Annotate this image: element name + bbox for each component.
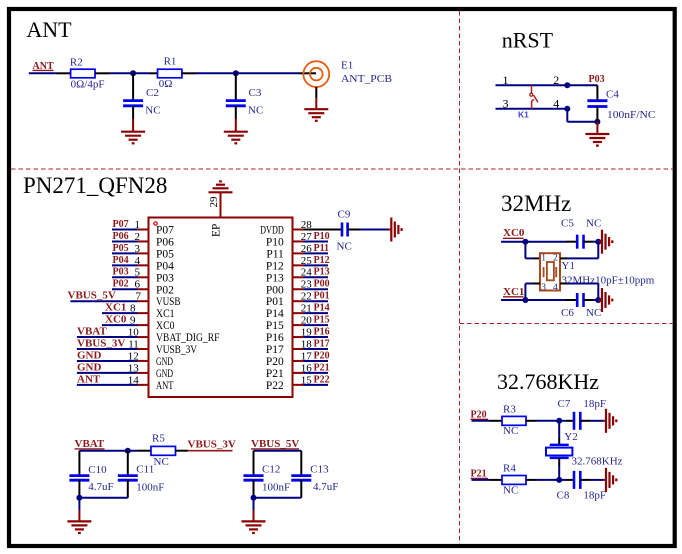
wire C5 right — [584, 241, 599, 243]
svg-text:P02: P02 — [113, 279, 129, 290]
svg-text:XC0: XC0 — [156, 320, 175, 332]
wire R1 to node2 — [182, 72, 236, 74]
junction VBAT ground — [76, 495, 82, 501]
junction VBUS_5V ground — [251, 495, 257, 501]
svg-text:P10: P10 — [314, 231, 330, 242]
svg-text:GND: GND — [156, 356, 173, 368]
svg-text:P11: P11 — [314, 243, 330, 254]
svg-text:ANT: ANT — [156, 380, 174, 392]
wire node to C7 — [559, 420, 574, 422]
svg-text:32.768KHz: 32.768KHz — [572, 455, 623, 467]
pin 2 P06 — [112, 231, 174, 249]
svg-text:0Ω: 0Ω — [159, 78, 173, 90]
wire rail to R5 — [138, 450, 152, 452]
svg-text:P17: P17 — [314, 338, 330, 349]
svg-text:GND: GND — [156, 368, 173, 380]
capacitor C12 — [244, 451, 291, 498]
net label VBAT power — [75, 438, 105, 450]
svg-text:P16: P16 — [266, 332, 284, 344]
svg-text:P01: P01 — [314, 291, 330, 302]
wire ANT to R2 — [29, 72, 71, 74]
svg-text:10: 10 — [128, 326, 140, 338]
svg-text:18pF: 18pF — [583, 398, 606, 410]
junction XC0 — [522, 239, 528, 245]
ground right of C9 — [388, 229, 391, 231]
pin 13 GND — [77, 361, 173, 380]
resistor R1 — [158, 56, 182, 91]
section divider horizontal upper — [11, 168, 673, 170]
wire node2 to E1 — [236, 72, 316, 74]
pin 16 P21 — [266, 362, 330, 380]
pin 27 P10 — [266, 231, 330, 249]
resistor R5 — [151, 433, 176, 468]
svg-text:P10: P10 — [266, 236, 284, 248]
svg-text:5: 5 — [135, 267, 141, 279]
pin 8 XC1 — [102, 302, 175, 321]
wire node1 to R1 — [150, 72, 158, 74]
wire node to Y2 — [558, 421, 560, 445]
pin 26 P11 — [266, 243, 329, 261]
svg-text:C7: C7 — [558, 398, 571, 410]
net label P21 — [471, 468, 489, 479]
svg-text:NC: NC — [586, 307, 601, 319]
svg-text:ANT: ANT — [26, 17, 72, 42]
svg-text:P00: P00 — [314, 279, 330, 290]
svg-text:P04: P04 — [113, 255, 129, 266]
pin 4 P04 — [112, 255, 174, 273]
svg-text:R5: R5 — [152, 433, 165, 445]
svg-text:VBUS_3V: VBUS_3V — [188, 439, 236, 451]
junction C5 right — [595, 239, 601, 245]
pin 11 VUSB_3V — [77, 337, 198, 356]
wire switch top — [496, 84, 598, 86]
svg-text:P03: P03 — [113, 267, 129, 278]
crystal Y1 — [540, 253, 655, 293]
antenna E1 ANT_PCB — [303, 60, 392, 87]
pin 18 P17 — [266, 338, 330, 356]
pin 10 VBAT_DIG_RF — [77, 325, 220, 344]
ground right of C7 — [604, 420, 606, 422]
svg-text:P13: P13 — [314, 267, 330, 278]
svg-text:NC: NC — [503, 425, 518, 437]
svg-text:C11: C11 — [136, 463, 154, 475]
ground above chip EP — [220, 192, 222, 217]
svg-text:E1: E1 — [341, 60, 353, 72]
svg-text:XC1: XC1 — [105, 302, 126, 314]
svg-text:P11: P11 — [266, 248, 284, 260]
svg-text:Y2: Y2 — [564, 431, 577, 443]
svg-text:P16: P16 — [314, 326, 330, 337]
ground right of C5 — [598, 241, 602, 243]
resistor R4 — [502, 462, 526, 496]
svg-text:18pF: 18pF — [583, 490, 606, 502]
net label XC1 — [503, 286, 524, 298]
wire XC0 — [501, 241, 577, 243]
svg-text:P03: P03 — [589, 74, 605, 85]
junction P20 node — [556, 418, 562, 424]
svg-text:29: 29 — [208, 196, 220, 208]
svg-text:NC: NC — [154, 456, 169, 468]
svg-text:P01: P01 — [266, 296, 284, 308]
svg-text:11: 11 — [128, 338, 139, 350]
svg-text:P12: P12 — [266, 260, 284, 272]
svg-text:6: 6 — [135, 279, 141, 291]
svg-text:9: 9 — [130, 315, 136, 327]
pin 17 P20 — [266, 350, 330, 368]
svg-text:3: 3 — [135, 243, 141, 255]
op-amp U1 PN271 chip body — [149, 218, 293, 398]
svg-text:P21: P21 — [266, 368, 284, 380]
wire R4 to node — [526, 479, 559, 481]
wire C6 right — [584, 299, 599, 301]
svg-text:4.7uF: 4.7uF — [313, 481, 338, 493]
svg-text:P00: P00 — [266, 284, 284, 296]
svg-text:P05: P05 — [156, 248, 174, 260]
svg-text:VBUS_3V: VBUS_3V — [77, 337, 125, 349]
svg-text:C13: C13 — [310, 463, 329, 475]
svg-text:P07: P07 — [156, 225, 174, 237]
svg-text:100nF: 100nF — [262, 481, 290, 493]
junction C4 bottom — [594, 119, 600, 125]
svg-text:P12: P12 — [314, 255, 330, 266]
net label VBUS_5V power — [251, 438, 299, 450]
svg-text:P03: P03 — [156, 272, 174, 284]
capacitor C3 — [226, 73, 263, 119]
wire node to C8 — [559, 479, 574, 481]
capacitor C6 — [561, 293, 601, 319]
svg-text:4: 4 — [553, 283, 558, 293]
wire C9 right — [348, 229, 388, 231]
pin 6 P02 — [112, 279, 174, 297]
svg-text:P22: P22 — [266, 380, 284, 392]
section divider horizontal right — [460, 323, 674, 325]
svg-text:2: 2 — [135, 231, 141, 243]
wire Y1 pin4 to C6 node — [560, 284, 598, 301]
svg-text:C6: C6 — [561, 307, 574, 319]
svg-text:C8: C8 — [557, 490, 570, 502]
svg-text:1: 1 — [541, 253, 546, 263]
svg-text:R1: R1 — [164, 56, 177, 68]
capacitor C9 — [337, 209, 352, 253]
svg-text:P13: P13 — [266, 272, 284, 284]
svg-text:C5: C5 — [561, 217, 574, 229]
wire R3 to node — [526, 420, 559, 422]
capacitor C11 — [118, 451, 165, 498]
wire VBAT rail — [79, 450, 137, 452]
wire C8 right — [580, 479, 603, 481]
junction XC1 — [522, 297, 528, 303]
ground right of C8 — [604, 479, 606, 481]
pin 1 P07 — [112, 219, 174, 237]
ground under C3 — [235, 119, 237, 132]
svg-text:8: 8 — [130, 303, 136, 315]
svg-text:K1: K1 — [518, 110, 529, 120]
capacitor C5 — [561, 217, 601, 248]
pin 12 GND — [77, 349, 173, 368]
svg-text:P05: P05 — [113, 243, 129, 254]
junction switch top — [564, 82, 570, 88]
svg-text:1: 1 — [135, 219, 141, 231]
wire XC0 to Y1 pin1 — [525, 242, 540, 259]
svg-text:NC: NC — [586, 217, 601, 229]
wire XC1 to Y1 pin3 — [525, 284, 540, 301]
wire R2 to node1 — [95, 72, 150, 74]
svg-text:XC0: XC0 — [503, 227, 525, 239]
svg-text:P14: P14 — [266, 308, 284, 320]
svg-text:DVDD: DVDD — [260, 225, 284, 237]
junction node2 — [233, 70, 239, 76]
pin 22 P01 — [266, 291, 330, 309]
wire VBAT ground rail — [79, 497, 127, 499]
pin 28 DVDD — [260, 219, 312, 237]
svg-text:100nF: 100nF — [136, 481, 164, 493]
pin 3 P05 — [112, 243, 174, 261]
svg-text:P22: P22 — [314, 374, 330, 385]
svg-text:ANT_PCB: ANT_PCB — [341, 73, 392, 85]
pin 20 P15 — [266, 315, 330, 333]
svg-text:P20: P20 — [266, 356, 284, 368]
svg-text:P02: P02 — [156, 284, 174, 296]
svg-text:XC1: XC1 — [156, 308, 175, 320]
svg-text:P14: P14 — [314, 303, 330, 314]
svg-text:C4: C4 — [606, 89, 619, 101]
svg-text:NC: NC — [248, 105, 263, 117]
net label VBUS_3V — [176, 439, 236, 451]
wire P20 to R3 — [472, 420, 503, 422]
svg-text:P21: P21 — [314, 362, 330, 373]
wire XC1 — [501, 299, 577, 301]
svg-text:P17: P17 — [266, 344, 284, 356]
pin 5 P03 — [112, 267, 174, 285]
svg-text:C10: C10 — [88, 464, 107, 476]
wire DVDD to C9 — [304, 229, 343, 231]
svg-text:NC: NC — [337, 241, 352, 253]
crystal Y2 — [546, 431, 623, 467]
pin 25 P12 — [266, 255, 330, 273]
svg-text:NC: NC — [503, 484, 518, 496]
svg-text:VBAT_DIG_RF: VBAT_DIG_RF — [156, 332, 220, 344]
pin 14 ANT — [77, 373, 174, 392]
capacitor C7 — [558, 398, 607, 430]
svg-text:13: 13 — [128, 362, 140, 374]
svg-text:14: 14 — [128, 374, 140, 386]
svg-text:3: 3 — [541, 283, 546, 293]
pin 7 VUSB — [68, 290, 181, 309]
svg-text:PN271_QFN28: PN271_QFN28 — [23, 173, 167, 198]
junction C6 right — [595, 297, 601, 303]
pin 23 P00 — [266, 279, 330, 297]
svg-text:ANT: ANT — [77, 373, 101, 385]
wire VBUS_5V ground rail — [254, 497, 302, 499]
svg-text:Y1: Y1 — [562, 260, 575, 272]
pin 9 XC0 — [102, 314, 175, 333]
pin 19 P16 — [266, 326, 330, 344]
svg-text:2: 2 — [553, 253, 558, 263]
ground right of C6 — [598, 299, 602, 301]
svg-text:C2: C2 — [146, 87, 159, 99]
svg-text:P15: P15 — [266, 320, 284, 332]
svg-text:VUSB: VUSB — [156, 296, 181, 308]
net label XC0 — [503, 227, 525, 239]
svg-text:NC: NC — [145, 105, 160, 117]
svg-text:C9: C9 — [338, 209, 351, 221]
junction VBAT rail C11 — [125, 448, 131, 454]
wire Y2 to P21 node — [558, 458, 560, 480]
svg-text:VUSB_3V: VUSB_3V — [156, 344, 198, 356]
svg-text:C3: C3 — [249, 87, 262, 99]
pin 24 P13 — [266, 267, 330, 285]
svg-text:P06: P06 — [113, 231, 129, 242]
wire Y1 pin2 to C5 node — [560, 242, 598, 259]
svg-text:R4: R4 — [503, 462, 516, 474]
svg-text:XC1: XC1 — [503, 286, 524, 298]
svg-text:VBUS_5V: VBUS_5V — [68, 290, 116, 302]
svg-text:4.7uF: 4.7uF — [88, 481, 113, 493]
svg-text:P06: P06 — [156, 236, 174, 248]
switch K1 — [518, 85, 538, 119]
ground under C12 — [253, 498, 255, 522]
wire P21 to R4 — [472, 479, 503, 481]
svg-text:32MHz: 32MHz — [501, 191, 571, 216]
ground under C10 — [78, 498, 80, 522]
svg-text:VBAT: VBAT — [77, 325, 107, 337]
capacitor C8 — [557, 471, 607, 502]
svg-text:C12: C12 — [262, 463, 280, 475]
ground under C4 — [596, 122, 598, 134]
ground under E1 — [315, 87, 317, 109]
capacitor C2 — [123, 73, 160, 119]
wire VBUS_5V rail — [254, 450, 302, 452]
wire C7 right — [580, 420, 603, 422]
net label ANT — [33, 61, 54, 72]
pin 15 P22 — [266, 374, 330, 392]
svg-text:12: 12 — [128, 350, 139, 362]
ground under C2 — [132, 119, 134, 132]
section divider vertical — [459, 11, 461, 544]
svg-text:32.768KHz: 32.768KHz — [497, 369, 599, 394]
svg-text:P20: P20 — [314, 350, 330, 361]
resistor R3 — [502, 403, 526, 437]
capacitor C10 — [69, 451, 113, 498]
svg-text:P04: P04 — [156, 260, 174, 272]
capacitor C13 — [291, 451, 338, 498]
junction switch bottom — [564, 106, 570, 112]
svg-text:R3: R3 — [503, 403, 516, 415]
net label P20 — [471, 409, 489, 420]
svg-text:GND: GND — [77, 361, 102, 373]
svg-text:XC0: XC0 — [105, 314, 127, 326]
svg-text:P07: P07 — [113, 219, 129, 230]
junction node1 — [130, 70, 136, 76]
junction P21 node — [556, 477, 562, 483]
svg-text:4: 4 — [135, 255, 141, 267]
svg-text:R2: R2 — [70, 56, 83, 68]
svg-text:EP: EP — [211, 224, 223, 237]
svg-text:P15: P15 — [314, 315, 330, 326]
wire switch bottom — [496, 108, 568, 110]
svg-text:0Ω/4pF: 0Ω/4pF — [71, 79, 105, 91]
svg-text:100nF/NC: 100nF/NC — [607, 109, 656, 121]
pin 21 P14 — [266, 303, 330, 321]
resistor R2 — [70, 56, 105, 90]
wire to C4 — [567, 109, 597, 122]
svg-text:GND: GND — [77, 349, 102, 361]
capacitor C4 — [587, 85, 655, 122]
svg-text:nRST: nRST — [502, 28, 554, 53]
svg-text:7: 7 — [136, 291, 142, 303]
